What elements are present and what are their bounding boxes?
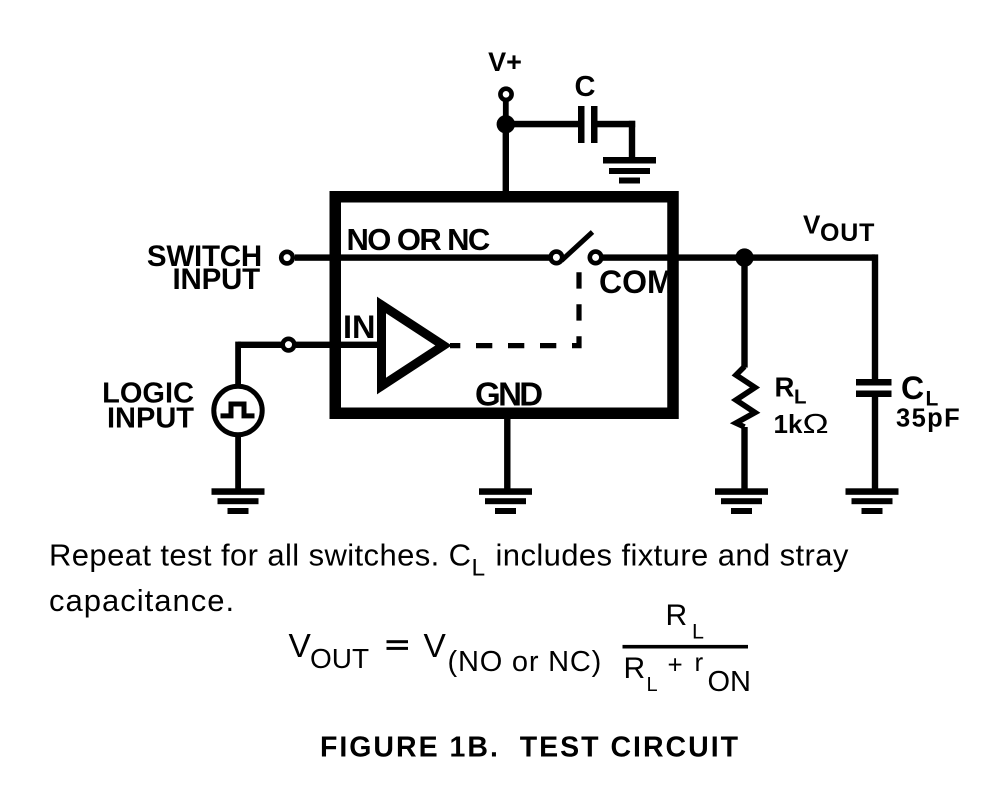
svg-text:C: C: [575, 71, 596, 103]
wire capacitor CL to ground: [872, 397, 878, 489]
DUT box: [335, 197, 673, 414]
svg-text:V: V: [424, 628, 447, 665]
capacitor C plate left: [578, 106, 585, 143]
svg-text:FIGURE 1B. TEST CIRCUIT: FIGURE 1B. TEST CIRCUIT: [320, 732, 740, 764]
svg-text:(NO or NC): (NO or NC): [448, 646, 603, 678]
svg-text:NO OR NC: NO OR NC: [347, 222, 490, 257]
wire pulse source to ground: [235, 434, 241, 489]
capacitor C plate right: [591, 106, 598, 143]
svg-text:R: R: [666, 599, 688, 632]
svg-text:r: r: [695, 647, 704, 677]
resistor RL zigzag: [736, 367, 755, 428]
terminal SWITCH INPUT: [281, 252, 293, 264]
dashed actuator linkage: [450, 272, 579, 345]
switch S1 lever: [562, 232, 593, 261]
terminal LOGIC INPUT: [283, 339, 295, 351]
ground (GND pin): [479, 488, 532, 514]
terminal V+: [500, 89, 511, 100]
svg-text:R: R: [624, 652, 646, 685]
wire resistor RL to ground: [741, 427, 747, 489]
svg-text:Ω: Ω: [803, 407, 829, 439]
wire logic input to buffer: [296, 342, 378, 348]
ground (logic input): [212, 488, 265, 514]
equation fraction bar: [623, 645, 749, 649]
svg-text:INPUT: INPUT: [172, 263, 260, 296]
svg-text:INPUT: INPUT: [107, 403, 194, 435]
wire box GND pin to ground: [504, 413, 510, 489]
svg-text:IN: IN: [343, 309, 376, 345]
svg-text:V: V: [289, 628, 312, 665]
svg-text:OUT: OUT: [310, 643, 369, 674]
svg-text:V+: V+: [488, 47, 522, 77]
ground (capacitor CL): [846, 488, 899, 514]
svg-text:capacitance.: capacitance.: [49, 583, 235, 618]
wire corner down to pulse source: [235, 342, 241, 387]
capacitor CL plate top: [856, 379, 892, 386]
svg-text:OUT: OUT: [820, 219, 875, 247]
pulse generator V1 waveform glyph: [221, 404, 255, 416]
svg-text:C: C: [901, 370, 924, 406]
svg-text:1k: 1k: [774, 409, 803, 439]
equation equals sign: [387, 640, 409, 643]
wire SWITCH INPUT to switch pole: [295, 254, 549, 260]
svg-text:+: +: [668, 650, 683, 680]
svg-text:R: R: [775, 372, 795, 403]
svg-text:COM: COM: [599, 264, 674, 300]
wire switch throw to output: [603, 254, 875, 260]
switch S1 throw contact: [590, 252, 602, 264]
svg-text:35pF: 35pF: [896, 405, 961, 433]
svg-text:ON: ON: [708, 666, 752, 698]
svg-text:L: L: [647, 674, 658, 696]
wire V+ junction down to box top: [503, 124, 509, 197]
capacitor CL plate bottom: [856, 391, 892, 398]
svg-text:L: L: [692, 620, 704, 644]
junction dot output node: [735, 248, 753, 266]
wire V+ terminal to junction: [503, 101, 509, 117]
svg-text:L: L: [794, 386, 807, 409]
wire capacitor C to corner: [598, 121, 636, 128]
wire corner down to ground: [629, 121, 635, 160]
pulse generator V1 body: [214, 386, 262, 434]
ground (capacitor C): [603, 157, 656, 184]
wire V+ junction to capacitor C: [506, 121, 578, 128]
svg-text:V: V: [803, 210, 821, 240]
wire output node down to resistor RL: [741, 258, 747, 368]
ground (resistor RL): [715, 488, 768, 514]
svg-text:GND: GND: [475, 376, 542, 413]
junction dot V+: [497, 115, 515, 133]
wire output corner down to load capacitor: [872, 254, 878, 379]
wire terminal to pulse source corner: [238, 342, 283, 348]
buffer amplifier A1: [382, 305, 444, 386]
switch S1 pole contact: [551, 252, 563, 264]
